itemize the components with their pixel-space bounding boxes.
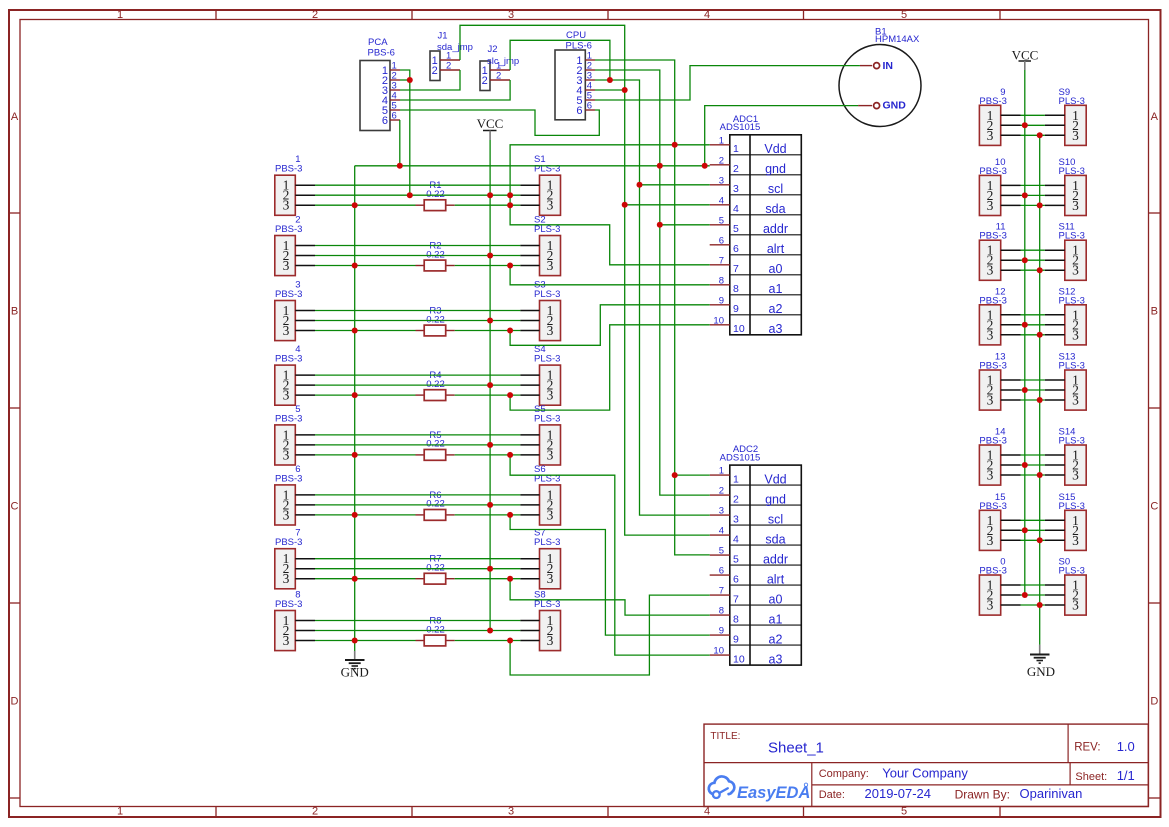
wire S5 pin3 to ADC2 a3 — [510, 455, 710, 655]
wire CPU pin4 to sda bus — [595, 89, 625, 91]
svg-text:0.22: 0.22 — [426, 249, 445, 260]
wire row 5 pin3 left segment — [315, 454, 416, 456]
svg-text:Drawn By:: Drawn By: — [955, 788, 1010, 802]
svg-text:PLS-3: PLS-3 — [534, 354, 560, 365]
svg-text:1: 1 — [733, 473, 739, 485]
svg-text:scl: scl — [768, 182, 783, 196]
svg-text:PBS-3: PBS-3 — [979, 361, 1006, 372]
svg-text:3: 3 — [1072, 533, 1079, 548]
connector S12 PLS-3 body (right) — [1065, 305, 1086, 345]
connector S3 PLS-3 body — [540, 301, 561, 341]
svg-text:PBS-3: PBS-3 — [275, 599, 302, 610]
connector S9 PLS-3 pin stubs (right) — [1045, 115, 1065, 135]
svg-text:4: 4 — [704, 9, 710, 21]
wire GND bus (right column) — [1039, 135, 1041, 644]
wire buzzer GND to gnd rail — [705, 106, 858, 166]
wire right row 12 pin3 — [1021, 334, 1045, 336]
svg-text:PLS-3: PLS-3 — [534, 599, 560, 610]
wire row 2 pin2 VCC net — [315, 255, 520, 257]
svg-text:1: 1 — [117, 9, 123, 21]
junction dots left VCC bus — [487, 192, 493, 633]
connector S11 PLS-3 pin stubs (right) — [1045, 250, 1065, 270]
buzzer B1 labels — [875, 27, 920, 46]
connector S8 PLS-3 labels — [534, 590, 560, 611]
connector PBS-3 #14 pin digits (right) — [987, 448, 994, 483]
connector PBS-3 #10 pin digits (right) — [987, 178, 994, 213]
connector PBS-3 #1 pin digits — [283, 178, 290, 213]
junction dot sensor VCC feed row1 — [407, 192, 413, 198]
wire S4 pin3 to ADC1 a3 — [510, 325, 710, 410]
svg-text:3: 3 — [547, 633, 554, 648]
svg-text:1.0: 1.0 — [1117, 739, 1135, 754]
connector S1 PLS-3 pin digits — [547, 178, 554, 213]
connector S13 PLS-3 body (right) — [1065, 370, 1086, 410]
wire J2 pin1 scl link to CPU pin3 — [510, 40, 610, 80]
IC ADC2 pin stubs — [710, 466, 730, 657]
resistor R2 0.22 — [416, 241, 455, 271]
jumper J1 sda_jmp body — [430, 51, 440, 81]
connector S12 PLS-3 pin digits (right) — [1072, 307, 1079, 342]
title block outline — [704, 724, 1148, 806]
wire right row 10 pin2 — [1021, 194, 1045, 196]
connector S6 PLS-3 labels — [534, 464, 560, 485]
wire VCC bus (left column) — [489, 140, 491, 631]
connector PBS-3 #11 pin stubs (right) — [1001, 250, 1021, 270]
svg-text:3: 3 — [1072, 468, 1079, 483]
connector S10 PLS-3 pin stubs (right) — [1045, 185, 1065, 205]
svg-text:1: 1 — [117, 806, 123, 818]
IC ADC1 ADS1015 labels — [720, 114, 761, 133]
wire PCA pin3 to J1 pin2 — [400, 70, 460, 90]
connector S2 PLS-3 pin stubs — [520, 246, 539, 266]
svg-text:PLS-3: PLS-3 — [1059, 566, 1085, 577]
wire right row 14 pin3 — [1021, 474, 1045, 476]
svg-text:3: 3 — [283, 633, 290, 648]
wire right row 9 pin2 — [1021, 124, 1045, 126]
wire row 4 pin2 VCC net — [315, 384, 520, 386]
connector PBS-3 #0 labels (right) — [979, 557, 1006, 577]
svg-text:5: 5 — [719, 546, 724, 557]
svg-text:CPU: CPU — [566, 30, 586, 41]
connector PBS-3 #7 pin stubs — [295, 559, 315, 579]
resistor R5 0.22 — [416, 430, 455, 460]
connector PBS-3 #0 pin stubs (right) — [1001, 585, 1021, 605]
svg-text:9: 9 — [719, 295, 724, 306]
wire right row 0 pin3 — [1021, 604, 1045, 606]
connector PBS-3 #1 body — [275, 175, 296, 215]
svg-text:2019-07-24: 2019-07-24 — [865, 786, 932, 801]
connector PBS-3 #3 pin stubs — [295, 311, 315, 331]
connector PBS-3 #1 pin stubs — [295, 185, 315, 205]
wire S6 pin3 to ADC2 a2 — [510, 515, 710, 635]
svg-text:PBS-3: PBS-3 — [979, 96, 1006, 107]
svg-text:3: 3 — [1072, 327, 1079, 342]
svg-text:B: B — [11, 306, 18, 318]
connector S10 PLS-3 body (right) — [1065, 175, 1086, 215]
svg-text:PLS-3: PLS-3 — [1059, 166, 1085, 177]
connector S10 PLS-3 labels (right) — [1059, 157, 1085, 177]
resistor R6 0.22 — [416, 490, 455, 520]
connector PBS-3 #12 labels (right) — [979, 286, 1006, 306]
svg-text:3: 3 — [987, 198, 994, 213]
connector S0 PLS-3 body (right) — [1065, 575, 1086, 615]
connector PBS-3 #3 body — [275, 301, 296, 341]
svg-text:3: 3 — [283, 258, 290, 273]
wire row 8 pin1 net — [315, 620, 520, 622]
wire row 3 pin3 right segment — [455, 330, 521, 332]
connector PBS-3 #6 pin stubs — [295, 495, 315, 515]
resistor R4 0.22 — [416, 370, 455, 400]
connector PBS-3 #15 labels (right) — [979, 492, 1006, 512]
wire row 4 pin3 left segment — [315, 394, 416, 396]
connector PBS-3 #15 pin stubs (right) — [1001, 520, 1021, 540]
svg-text:6: 6 — [719, 566, 724, 577]
connector PBS-3 #5 labels — [275, 404, 302, 425]
connector PBS-3 #8 labels — [275, 590, 302, 611]
connector PBS-3 #2 labels — [275, 215, 302, 236]
svg-text:4: 4 — [733, 533, 739, 545]
wire right row 11 pin3 — [1021, 269, 1045, 271]
svg-text:A: A — [1151, 111, 1159, 123]
junction dot ADC2 Vdd — [672, 472, 678, 478]
svg-text:6: 6 — [733, 243, 739, 255]
svg-text:0.22: 0.22 — [426, 499, 445, 510]
svg-text:B: B — [1151, 306, 1158, 318]
connector PBS-3 #6 body — [275, 485, 296, 525]
svg-text:5: 5 — [733, 553, 739, 565]
svg-text:1/1: 1/1 — [1117, 768, 1135, 783]
svg-text:IN: IN — [883, 60, 894, 72]
svg-text:2: 2 — [719, 486, 724, 497]
svg-text:3: 3 — [547, 323, 554, 338]
junction dots right VCC bus — [1022, 122, 1028, 598]
svg-text:sda_jmp: sda_jmp — [437, 42, 473, 53]
svg-text:alrt: alrt — [767, 242, 785, 256]
connector CPU pins — [576, 51, 595, 117]
resistor R3 0.22 — [416, 306, 455, 336]
company label and value — [819, 765, 969, 780]
jumper J1 labels — [437, 30, 473, 53]
svg-text:GND: GND — [1027, 664, 1055, 679]
connector S3 PLS-3 labels — [534, 280, 560, 301]
junction dots S-column pin3 taps — [507, 192, 513, 643]
svg-text:4: 4 — [704, 806, 710, 818]
connector PBS-3 #7 labels — [275, 528, 302, 549]
wire row 6 pin2 VCC net — [315, 504, 520, 506]
connector PBS-3 #3 labels — [275, 280, 302, 301]
svg-text:3: 3 — [719, 506, 724, 517]
connector S15 PLS-3 body (right) — [1065, 510, 1086, 550]
connector PBS-3 #9 labels (right) — [979, 87, 1006, 107]
svg-text:Date:: Date: — [819, 789, 845, 801]
wire row 3 pin1 net — [315, 310, 520, 312]
connector S1 PLS-3 body — [540, 175, 561, 215]
connector S7 PLS-3 pin digits — [547, 551, 554, 586]
junction dots right GND bus — [1037, 132, 1043, 608]
junction dot ADC1 addr — [657, 222, 663, 228]
connector S2 PLS-3 labels — [534, 215, 560, 236]
svg-text:3: 3 — [1072, 393, 1079, 408]
svg-text:0.22: 0.22 — [426, 379, 445, 390]
svg-text:addr: addr — [763, 552, 788, 566]
svg-text:4: 4 — [733, 203, 739, 215]
connector S7 PLS-3 body — [540, 549, 561, 589]
connector PBS-3 #0 body (right) — [979, 575, 1000, 615]
svg-text:2: 2 — [312, 9, 318, 21]
svg-text:PBS-6: PBS-6 — [368, 47, 395, 58]
connector S11 PLS-3 pin digits (right) — [1072, 243, 1079, 278]
wire right row 10 pin1 — [1021, 184, 1045, 186]
connector PBS-3 #9 pin digits (right) — [987, 108, 994, 143]
wire row 3 pin3 left segment — [315, 330, 416, 332]
svg-text:ADS1015: ADS1015 — [720, 122, 761, 133]
connector S10 PLS-3 pin digits (right) — [1072, 178, 1079, 213]
ruler row letters right — [1150, 111, 1158, 708]
net flag GND (right) — [1027, 645, 1055, 679]
connector PBS-3 #11 labels (right) — [979, 222, 1006, 242]
svg-text:5: 5 — [901, 806, 907, 818]
svg-text:1: 1 — [733, 143, 739, 155]
wire row 8 pin2 VCC net — [315, 630, 520, 632]
wire row 1 pin3 right segment — [455, 204, 521, 206]
connector PBS-3 #13 pin stubs (right) — [1001, 380, 1021, 400]
connector PBS-3 #2 pin stubs — [295, 246, 315, 266]
connector PBS-3 #5 body — [275, 425, 296, 465]
wire S7 pin3 to ADC2 a1 — [510, 579, 710, 615]
svg-text:Sheet:: Sheet: — [1075, 771, 1107, 783]
svg-text:3: 3 — [987, 533, 994, 548]
svg-text:PLS-3: PLS-3 — [1059, 96, 1085, 107]
svg-text:2: 2 — [496, 71, 501, 82]
connector PBS-3 #8 body — [275, 611, 296, 651]
svg-text:GND: GND — [341, 665, 369, 680]
wire CPU pin1 VCC net to ADC Vdd and ADC2 addr — [595, 60, 710, 555]
wire S8 pin3 to ADC2 a0 — [510, 595, 710, 675]
connector PBS-3 #15 pin digits (right) — [987, 513, 994, 548]
ruler column numbers top — [117, 9, 907, 21]
svg-text:PLS-3: PLS-3 — [534, 537, 560, 548]
svg-text:TITLE:: TITLE: — [710, 731, 740, 742]
connector PBS-3 #12 pin digits (right) — [987, 307, 994, 342]
REV label and value — [1074, 739, 1135, 754]
wire J1 pin1 sda net to CPU pin4 and ADC sda bus — [460, 25, 710, 535]
wire row 7 pin3 left segment — [315, 578, 416, 580]
connector PBS-3 #4 labels — [275, 344, 302, 365]
connector S8 PLS-3 pin stubs — [520, 621, 539, 641]
wire row 8 pin3 right segment — [455, 640, 521, 642]
svg-text:J1: J1 — [438, 30, 448, 41]
svg-text:Company:: Company: — [819, 768, 869, 780]
svg-text:8: 8 — [719, 275, 724, 286]
wire right row 11 pin1 — [1021, 249, 1045, 251]
wire right row 9 pin1 — [1021, 114, 1045, 116]
svg-text:3: 3 — [987, 598, 994, 613]
svg-text:0.22: 0.22 — [426, 624, 445, 635]
svg-text:10: 10 — [713, 315, 724, 326]
svg-text:3: 3 — [1072, 598, 1079, 613]
svg-text:sda: sda — [765, 532, 785, 546]
title block dividers — [704, 724, 1148, 806]
wire row 2 pin3 left segment — [315, 265, 416, 267]
wire right row 14 pin1 — [1021, 454, 1045, 456]
connector S8 PLS-3 pin digits — [547, 613, 554, 648]
svg-text:8: 8 — [733, 283, 739, 295]
wire CPU pin2 gnd net to ADC1 addr and ADC2 gnd — [595, 70, 710, 495]
connector S9 PLS-3 pin digits (right) — [1072, 108, 1079, 143]
jumper J2 pins — [482, 61, 510, 87]
wire row 2 pin3 right segment — [455, 265, 521, 267]
IC ADC1 pin stubs — [710, 135, 730, 326]
svg-text:a0: a0 — [769, 592, 783, 606]
connector S13 PLS-3 pin digits (right) — [1072, 373, 1079, 408]
wire S3 pin3 to ADC1 a2 — [510, 305, 710, 346]
svg-text:9: 9 — [733, 303, 739, 315]
wire PCA pin1-pin2 to sensor VCC feed — [400, 70, 410, 195]
connector CPU labels — [566, 30, 592, 52]
jumper J1 pins — [432, 51, 460, 77]
svg-text:slc_jmp: slc_jmp — [487, 56, 519, 67]
svg-text:3: 3 — [733, 183, 739, 195]
svg-text:3: 3 — [283, 447, 290, 462]
wire row 7 pin2 VCC net — [315, 568, 520, 570]
svg-text:PBS-3: PBS-3 — [979, 501, 1006, 512]
svg-text:3: 3 — [987, 128, 994, 143]
connector PBS-3 #13 labels (right) — [979, 352, 1006, 372]
svg-text:2: 2 — [446, 61, 451, 72]
svg-text:PBS-3: PBS-3 — [979, 295, 1006, 306]
svg-text:Your Company: Your Company — [882, 765, 968, 780]
connector S3 PLS-3 pin digits — [547, 303, 554, 338]
svg-text:3: 3 — [547, 388, 554, 403]
connector S14 PLS-3 pin stubs (right) — [1045, 455, 1065, 475]
svg-text:3: 3 — [283, 388, 290, 403]
svg-text:3: 3 — [283, 198, 290, 213]
wire right row 0 pin1 — [1021, 584, 1045, 586]
wire right row 12 pin2 — [1021, 324, 1045, 326]
connector S13 PLS-3 labels (right) — [1059, 352, 1085, 372]
connector S2 PLS-3 pin digits — [547, 238, 554, 273]
IC ADC2 ADS1015 labels — [720, 444, 761, 463]
svg-text:0.22: 0.22 — [426, 189, 445, 200]
connector S6 PLS-3 pin digits — [547, 487, 554, 522]
svg-text:a0: a0 — [769, 262, 783, 276]
wire right row 15 pin2 — [1021, 529, 1045, 531]
svg-text:a3: a3 — [769, 652, 783, 666]
connector S1 PLS-3 pin stubs — [520, 185, 539, 205]
connector PBS-3 #7 body — [275, 549, 296, 589]
svg-text:3: 3 — [547, 507, 554, 522]
junction dots GND rail — [397, 163, 708, 169]
svg-text:PLS-3: PLS-3 — [1059, 436, 1085, 447]
svg-text:PBS-3: PBS-3 — [275, 354, 302, 365]
svg-text:2: 2 — [312, 806, 318, 818]
wire ADC1 sda row — [625, 204, 710, 206]
connector S14 PLS-3 body (right) — [1065, 445, 1086, 485]
connector PBS-3 #2 body — [275, 236, 296, 276]
svg-text:PLS-3: PLS-3 — [534, 413, 560, 424]
junction dot ADC1 sda — [622, 202, 628, 208]
svg-text:3: 3 — [547, 258, 554, 273]
connector S6 PLS-3 body — [540, 485, 561, 525]
jumper J2 labels — [487, 44, 519, 67]
svg-text:3: 3 — [1072, 198, 1079, 213]
connector PBS-3 #6 labels — [275, 464, 302, 485]
buzzer B1 HPM14AX circle — [839, 45, 921, 127]
connector S9 PLS-3 labels (right) — [1059, 87, 1085, 107]
svg-text:scl: scl — [768, 512, 783, 526]
svg-text:6: 6 — [392, 111, 397, 122]
wire row 6 pin1 net — [315, 494, 520, 496]
svg-text:Vdd: Vdd — [764, 142, 786, 156]
svg-text:C: C — [1150, 501, 1158, 513]
svg-text:PLS-3: PLS-3 — [1059, 295, 1085, 306]
connector PBS-3 #9 body (right) — [979, 105, 1000, 145]
drawn-by label and value — [955, 786, 1083, 801]
svg-text:0.22: 0.22 — [426, 563, 445, 574]
connector PBS-3 #14 labels (right) — [979, 427, 1006, 447]
connector S5 PLS-3 pin digits — [547, 427, 554, 462]
svg-text:PBS-3: PBS-3 — [275, 164, 302, 175]
svg-text:alrt: alrt — [767, 572, 785, 586]
wire ADC1 addr row — [660, 224, 710, 226]
wire row 7 pin1 net — [315, 558, 520, 560]
IC ADC1 pin numbers and names — [733, 142, 788, 336]
svg-text:3: 3 — [987, 263, 994, 278]
svg-text:PLS-3: PLS-3 — [534, 289, 560, 300]
wire PCA pin5 to CPU pin6 — [400, 110, 599, 135]
svg-text:PLS-3: PLS-3 — [1059, 361, 1085, 372]
wire right row 0 pin2 — [1021, 594, 1045, 596]
connector PBS-3 #14 pin stubs (right) — [1001, 455, 1021, 475]
connector S11 PLS-3 body (right) — [1065, 240, 1086, 280]
connector S1 PLS-3 labels — [534, 154, 560, 175]
connector S12 PLS-3 pin stubs (right) — [1045, 315, 1065, 335]
wire right row 13 pin2 — [1021, 389, 1045, 391]
wire PCA pin4 to J2 pin2 — [400, 80, 510, 100]
connector S4 PLS-3 pin digits — [547, 368, 554, 403]
svg-text:VCC: VCC — [477, 116, 504, 131]
wire row 8 pin3 left segment — [315, 640, 416, 642]
svg-text:3: 3 — [987, 327, 994, 342]
svg-text:4: 4 — [719, 195, 724, 206]
wire right row 15 pin1 — [1021, 519, 1045, 521]
svg-text:8: 8 — [733, 613, 739, 625]
connector PBS-3 #5 pin digits — [283, 427, 290, 462]
connector PBS-3 #0 pin digits (right) — [987, 578, 994, 613]
svg-text:10: 10 — [733, 323, 745, 335]
svg-text:1: 1 — [719, 135, 724, 146]
svg-text:3: 3 — [547, 447, 554, 462]
connector PBS-3 #6 pin digits — [283, 487, 290, 522]
svg-text:6: 6 — [382, 115, 388, 127]
svg-text:gnd: gnd — [765, 492, 786, 506]
svg-text:6: 6 — [576, 105, 582, 117]
connector S5 PLS-3 pin stubs — [520, 435, 539, 455]
svg-text:3: 3 — [1072, 263, 1079, 278]
connector S7 PLS-3 pin stubs — [520, 559, 539, 579]
wire CPU pin5 to buzzer IN — [595, 66, 860, 100]
net flag VCC (left) — [477, 116, 504, 140]
connector CPU PLS-6 body — [555, 50, 585, 120]
svg-text:10: 10 — [733, 653, 745, 665]
svg-text:3: 3 — [987, 393, 994, 408]
connector PBS-3 #12 body (right) — [979, 305, 1000, 345]
svg-text:D: D — [1150, 696, 1158, 708]
svg-text:3: 3 — [508, 9, 514, 21]
connector S14 PLS-3 pin digits (right) — [1072, 448, 1079, 483]
svg-text:C: C — [11, 501, 19, 513]
connector S5 PLS-3 body — [540, 425, 561, 465]
